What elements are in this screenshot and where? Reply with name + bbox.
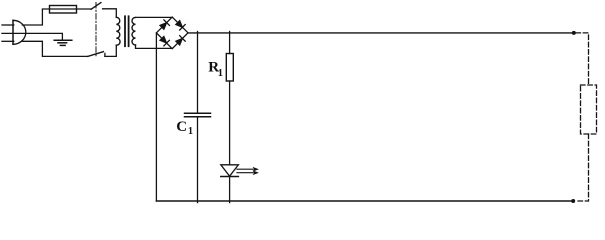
diode VD3 (bottom-left) xyxy=(159,36,169,46)
wire capacitor branch top xyxy=(197,32,199,114)
svg-text:1: 1 xyxy=(218,68,223,79)
switch S bottom blade xyxy=(88,52,104,57)
LED light arrow 1 xyxy=(237,167,259,172)
terminal dot top xyxy=(572,31,576,35)
terminal dot bottom xyxy=(571,199,575,203)
transformer T1 primary winding xyxy=(116,17,120,45)
switch linkage (dash-dot) xyxy=(95,3,97,58)
dashed lead bottom xyxy=(576,134,589,201)
wire resistor to LED xyxy=(229,81,231,165)
ground xyxy=(54,40,72,45)
LED cathode bar xyxy=(221,176,239,178)
load (dashed rectangle) xyxy=(581,85,597,134)
top rail (positive) xyxy=(188,32,574,34)
capacitor C1 xyxy=(185,113,211,117)
diode VD2 (top-right) xyxy=(175,20,185,30)
wire fuse to switch xyxy=(77,8,92,10)
wire plug bottom to switch xyxy=(22,41,88,56)
switch S top blade xyxy=(91,3,101,10)
switch contact tick xyxy=(104,53,106,56)
bottom rail xyxy=(156,200,573,202)
wire middle pin to earth xyxy=(2,33,62,40)
dashed lead top xyxy=(576,33,589,85)
resistor R1 xyxy=(226,54,233,82)
wire LED bottom xyxy=(229,177,231,203)
wire secondary bottom to bridge xyxy=(136,45,173,48)
transformer T1 secondary winding xyxy=(132,17,136,45)
fuse FU xyxy=(50,6,77,14)
wire resistor branch top xyxy=(229,32,231,54)
bridge rectifier diamond xyxy=(156,17,188,49)
LED VD5 triangle xyxy=(221,165,239,176)
transformer T1 core xyxy=(125,16,129,46)
wire plug top to fuse xyxy=(22,9,49,25)
label R1 xyxy=(208,59,223,79)
plug P (mains plug, D-shape with three pins) xyxy=(2,20,26,44)
svg-text:C: C xyxy=(176,119,187,135)
LED light arrow 2 xyxy=(237,170,259,175)
diode VD1 (top-left) xyxy=(159,20,169,30)
svg-text:1: 1 xyxy=(188,126,193,137)
wire switch to transformer primary top xyxy=(103,9,117,17)
wire switch to transformer primary bottom xyxy=(105,45,116,56)
wire bridge minus down xyxy=(155,33,157,201)
wire capacitor bottom xyxy=(197,117,199,203)
diode VD4 (bottom-right) xyxy=(175,36,185,46)
label C1 xyxy=(176,119,193,137)
wire secondary top to bridge xyxy=(136,16,173,18)
